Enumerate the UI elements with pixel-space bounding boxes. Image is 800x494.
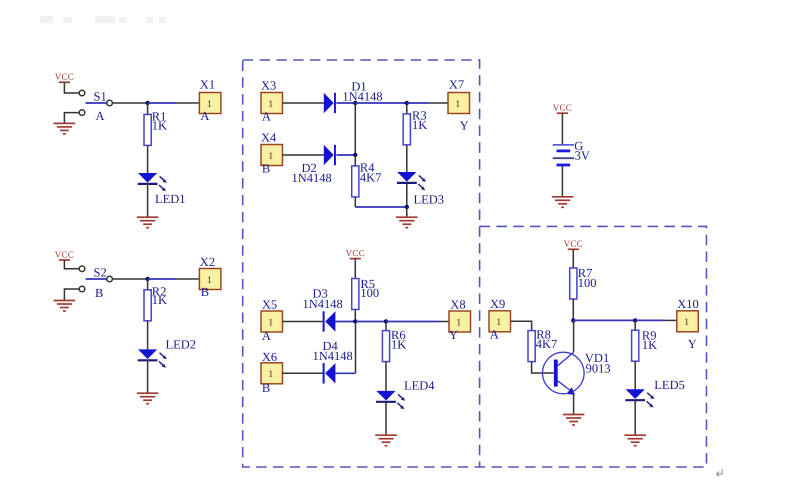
- svg-text:X8: X8: [450, 297, 465, 311]
- wire: [112, 102, 147, 104]
- ground: [137, 217, 159, 228]
- label D1 1N4148: [342, 79, 382, 103]
- svg-text:A: A: [262, 110, 271, 124]
- svg-text:A: A: [96, 109, 105, 123]
- label LED4: [404, 378, 435, 392]
- svg-text:X3: X3: [261, 78, 276, 92]
- node A label: [490, 328, 499, 342]
- node Y label: [460, 119, 469, 133]
- LED LED1: [138, 173, 167, 191]
- ground: [54, 123, 76, 133]
- connector X7: [448, 93, 470, 114]
- label VD1 9013: [585, 351, 611, 376]
- return mark: [717, 469, 723, 477]
- svg-text:A: A: [262, 329, 271, 343]
- node B label: [262, 381, 270, 395]
- wire: [148, 278, 176, 280]
- node A label: [262, 110, 271, 124]
- connector X5: [261, 311, 283, 332]
- node junction: [571, 318, 575, 322]
- connector X3: [261, 93, 283, 114]
- wire: [354, 155, 356, 166]
- svg-text:X9: X9: [490, 297, 505, 311]
- wire: [532, 362, 554, 373]
- svg-text:B: B: [201, 285, 209, 299]
- svg-text:A: A: [200, 109, 209, 123]
- svg-text:1N4148: 1N4148: [292, 171, 332, 185]
- wire: [385, 322, 387, 331]
- wire: [147, 279, 149, 290]
- label LED2: [166, 338, 197, 352]
- node junction: [405, 205, 409, 209]
- svg-text:B: B: [262, 161, 270, 175]
- resistor R2: [144, 290, 151, 321]
- svg-text:Y: Y: [688, 337, 697, 351]
- svg-text:100: 100: [578, 276, 597, 290]
- dashed box diode-gate block: [243, 60, 480, 467]
- wire: [385, 362, 387, 391]
- label S2: [94, 265, 107, 279]
- svg-text:100: 100: [360, 286, 379, 300]
- wire: [634, 320, 636, 330]
- label S1: [94, 89, 107, 103]
- wire: [561, 113, 563, 144]
- label R8 4K7: [536, 328, 558, 351]
- node A label: [200, 109, 209, 123]
- svg-text:LED1: LED1: [155, 192, 186, 206]
- svg-text:B: B: [95, 286, 103, 300]
- wire: [406, 103, 408, 114]
- switch S2: [79, 266, 112, 292]
- wire pin X8: [439, 321, 449, 323]
- label R6 1K: [391, 328, 406, 352]
- node Y label: [688, 337, 697, 351]
- wire: [385, 402, 387, 435]
- svg-text:1K: 1K: [412, 118, 427, 132]
- svg-text:1K: 1K: [642, 338, 657, 352]
- svg-text:1N4148: 1N4148: [303, 297, 343, 311]
- connector X4: [261, 145, 283, 166]
- label R9 1K: [642, 329, 657, 353]
- wire pin X2: [176, 278, 199, 280]
- wire: [112, 278, 147, 280]
- svg-text:X6: X6: [262, 350, 277, 364]
- label X4: [261, 130, 277, 144]
- label X3: [261, 78, 276, 92]
- LED LED5: [625, 389, 654, 407]
- label X6: [262, 350, 277, 364]
- label D3 1N4148: [303, 286, 343, 311]
- svg-text:X1: X1: [200, 78, 215, 92]
- node junction: [145, 101, 149, 105]
- node A label: [96, 109, 105, 123]
- ground: [563, 415, 585, 426]
- ground: [396, 217, 418, 228]
- connector X8: [449, 311, 471, 332]
- connector X1: [199, 93, 221, 114]
- wire: [573, 319, 635, 321]
- diode D4: [323, 363, 336, 383]
- node junction: [633, 318, 637, 322]
- wire: [573, 395, 575, 415]
- node B label: [262, 161, 270, 175]
- wire: [406, 145, 408, 172]
- resistor R1: [144, 114, 151, 145]
- label X1: [200, 78, 215, 92]
- wire pin X10: [664, 319, 677, 321]
- wire: [147, 360, 149, 392]
- label R3 1K: [412, 109, 427, 132]
- svg-text:1K: 1K: [152, 293, 167, 307]
- node B label: [95, 286, 103, 300]
- svg-text:9013: 9013: [586, 362, 611, 376]
- label X2: [200, 255, 215, 269]
- svg-text:S1: S1: [94, 89, 107, 103]
- LED LED3: [397, 172, 426, 190]
- faint header text: [40, 16, 166, 23]
- node junction: [353, 101, 357, 105]
- ground: [54, 301, 76, 312]
- resistor R6: [382, 331, 389, 362]
- wire: [147, 103, 149, 114]
- label R1 1K: [152, 110, 167, 133]
- wire: [147, 321, 149, 350]
- svg-text:1K: 1K: [152, 119, 167, 133]
- wire: [407, 102, 430, 104]
- label R2 1K: [152, 284, 167, 307]
- power VCC (S2): [55, 249, 74, 260]
- label X10: [677, 297, 699, 311]
- label G 3V: [574, 139, 590, 162]
- svg-text:S2: S2: [94, 265, 107, 279]
- resistor R3: [403, 114, 410, 145]
- svg-text:LED3: LED3: [414, 192, 445, 206]
- wire: [354, 197, 356, 207]
- ground: [552, 197, 574, 208]
- resistor R5: [352, 279, 359, 310]
- wire: [283, 154, 324, 156]
- label X7: [449, 78, 464, 92]
- ground: [624, 435, 646, 446]
- wire: [406, 207, 408, 217]
- LED LED2: [138, 349, 167, 367]
- svg-text:1K: 1K: [391, 338, 406, 352]
- node B label: [201, 285, 209, 299]
- wire: [64, 113, 79, 123]
- svg-text:X2: X2: [200, 255, 215, 269]
- wire: [354, 310, 356, 322]
- svg-text:X5: X5: [262, 298, 277, 312]
- battery G 3V: [553, 145, 574, 165]
- wire: [64, 260, 79, 269]
- connector X6: [261, 363, 283, 384]
- label R5 100: [360, 277, 379, 300]
- svg-text:LED5: LED5: [654, 378, 685, 392]
- svg-text:3V: 3V: [575, 149, 590, 163]
- node junction: [384, 319, 388, 323]
- ground: [137, 393, 159, 404]
- wire: [283, 372, 323, 374]
- svg-text:B: B: [262, 381, 270, 395]
- wire: [634, 361, 636, 389]
- svg-text:A: A: [490, 328, 499, 342]
- power VCC (NOT gate): [564, 239, 583, 250]
- svg-text:X10: X10: [677, 297, 699, 311]
- diode D2: [324, 145, 336, 165]
- node Y label: [449, 328, 458, 342]
- node junction: [353, 153, 357, 157]
- wire: [64, 289, 79, 300]
- dashed box transistor block: [480, 226, 707, 467]
- switch S1: [79, 90, 112, 115]
- diode D1: [324, 93, 336, 113]
- connector X2: [199, 269, 221, 290]
- wire: [634, 400, 636, 434]
- svg-text:4K7: 4K7: [360, 170, 382, 184]
- connector X9: [489, 311, 511, 332]
- wire: [511, 321, 532, 330]
- svg-text:1N4148: 1N4148: [342, 90, 382, 104]
- label LED5: [654, 378, 685, 392]
- svg-text:Y: Y: [460, 119, 469, 133]
- wire: [64, 82, 79, 93]
- svg-text:1N4148: 1N4148: [313, 349, 353, 363]
- label X9: [490, 297, 505, 311]
- wire: [354, 103, 356, 155]
- wire: [283, 102, 324, 104]
- resistor R7: [570, 268, 577, 299]
- svg-text:LED2: LED2: [166, 338, 197, 352]
- svg-text:Y: Y: [449, 328, 458, 342]
- label R7 100: [578, 266, 597, 290]
- LED LED4: [376, 391, 405, 409]
- connector X10: [677, 311, 699, 332]
- label LED1: [155, 192, 186, 206]
- wire: [283, 321, 323, 323]
- wire: [355, 322, 357, 374]
- label D4 1N4148: [313, 339, 353, 363]
- resistor R4: [352, 166, 359, 197]
- power VCC (S1): [55, 72, 74, 83]
- wire: [572, 299, 574, 320]
- svg-text:X4: X4: [261, 130, 277, 144]
- resistor R9: [632, 330, 639, 361]
- wire: [406, 183, 408, 207]
- wire: [354, 259, 356, 279]
- wire: [561, 166, 563, 196]
- wire pin X7: [430, 102, 448, 104]
- wire: [336, 102, 355, 104]
- ground: [375, 435, 397, 446]
- power VCC (AND gate): [346, 248, 365, 259]
- wire: [148, 102, 176, 104]
- power VCC (battery): [553, 103, 572, 114]
- wire: [386, 321, 439, 323]
- wire: [635, 319, 664, 321]
- wire: [147, 145, 149, 173]
- wire: [355, 102, 407, 104]
- wire: [355, 206, 407, 208]
- label X8: [450, 297, 465, 311]
- wire: [573, 320, 575, 352]
- svg-text:4K7: 4K7: [536, 337, 558, 351]
- wire: [147, 184, 149, 217]
- label D2 1N4148: [292, 161, 332, 185]
- wire: [355, 321, 386, 323]
- node junction: [405, 101, 409, 105]
- wire: [572, 249, 574, 268]
- node junction: [145, 277, 149, 281]
- node A label: [262, 329, 271, 343]
- label R4 4K7: [360, 161, 382, 185]
- svg-text:X7: X7: [449, 78, 464, 92]
- svg-text:LED4: LED4: [404, 378, 435, 392]
- label LED3: [414, 192, 445, 206]
- wire: [336, 154, 355, 156]
- wire pin X1: [176, 102, 199, 104]
- resistor R8: [528, 331, 535, 362]
- transistor VD1: [543, 352, 585, 395]
- wire: [336, 372, 356, 374]
- wire: [336, 321, 356, 323]
- label X5: [262, 298, 277, 312]
- node junction: [353, 319, 357, 323]
- diode D3: [323, 311, 336, 331]
